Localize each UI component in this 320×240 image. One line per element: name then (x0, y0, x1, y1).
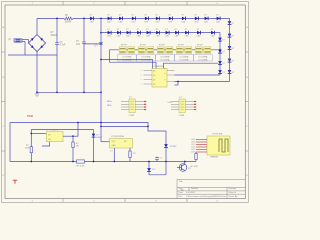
svg-text:OUT1: OUT1 (191, 147, 196, 149)
svg-text:D?: D? (216, 15, 218, 17)
svg-text:510K: 510K (25, 148, 31, 150)
svg-text:D?: D? (222, 39, 224, 41)
svg-text:OUT1: OUT1 (191, 142, 196, 144)
svg-text:D?: D? (232, 35, 234, 37)
svg-text:R? R?: R? R? (121, 45, 128, 47)
svg-text:R? R?: R? R? (197, 45, 204, 47)
svg-text:D?: D? (107, 15, 109, 17)
svg-text:LED: LED (117, 36, 121, 38)
svg-text:OUT1: OUT1 (191, 149, 196, 151)
svg-text:LED: LED (165, 36, 169, 38)
svg-text:LED: LED (195, 21, 199, 23)
svg-text:D?: D? (126, 29, 128, 31)
svg-text:LED: LED (211, 36, 215, 38)
svg-text:R? 100: R? 100 (191, 166, 199, 168)
svg-text:VD1-: VD1- (107, 105, 112, 107)
svg-text:D?: D? (117, 29, 119, 31)
svg-text:LED: LED (119, 21, 123, 23)
svg-text:LED: LED (137, 36, 141, 38)
svg-text:D?: D? (137, 29, 139, 31)
svg-text:OUT1: OUT1 (191, 144, 196, 146)
svg-text:D?: D? (107, 29, 109, 31)
svg-text:D?: D? (222, 72, 224, 74)
svg-text:LED: LED (169, 21, 173, 23)
svg-text:R? 0.33: R? 0.33 (77, 165, 85, 167)
svg-text:CON8: CON8 (129, 115, 135, 117)
svg-text:LED: LED (182, 21, 186, 23)
svg-text:LED: LED (197, 36, 201, 38)
svg-text:PWM: PWM (27, 115, 33, 118)
svg-text:1: 1 (141, 75, 142, 77)
svg-text:GND: GND (112, 145, 117, 147)
svg-text:D?: D? (185, 29, 187, 31)
svg-text:1R: 1R (76, 146, 79, 148)
svg-text:1: 1 (141, 79, 142, 81)
svg-text:D?: D? (165, 29, 167, 31)
svg-text:VD1+: VD1+ (107, 101, 113, 103)
svg-text:D?: D? (222, 51, 224, 53)
svg-text:D?: D? (211, 29, 213, 31)
svg-text:OUT1: OUT1 (191, 152, 196, 154)
svg-text:D?: D? (232, 72, 234, 74)
svg-text:Revision: Revision (229, 188, 237, 190)
svg-text:D?: D? (204, 15, 206, 17)
svg-text:D?: D? (222, 63, 224, 65)
svg-text:D?: D? (169, 15, 171, 17)
svg-text:GR8835: GR8835 (210, 157, 219, 159)
svg-text:LED: LED (175, 36, 179, 38)
svg-text:R? R?: R? R? (178, 45, 185, 47)
svg-text:4-Jul-2011: 4-Jul-2011 (186, 192, 196, 194)
svg-text:D?: D? (119, 15, 121, 17)
svg-text:1: 1 (141, 70, 142, 72)
svg-text:2W10: 2W10 (51, 35, 58, 37)
svg-text:D?: D? (90, 15, 92, 17)
svg-text:LED: LED (156, 36, 160, 38)
svg-text:Number: Number (191, 188, 198, 190)
svg-text:LED: LED (204, 21, 208, 23)
svg-text:LED: LED (146, 36, 150, 38)
svg-text:LED: LED (107, 21, 111, 23)
svg-text:R? R?: R? R? (140, 45, 147, 47)
svg-text:D?: D? (156, 29, 158, 31)
svg-text:R? R?: R? R? (159, 45, 166, 47)
svg-text:D?: D? (197, 29, 199, 31)
svg-text:LED: LED (145, 21, 149, 23)
svg-text:4.7uF: 4.7uF (60, 45, 66, 47)
svg-text:D?: D? (182, 15, 184, 17)
svg-text:Drawn By:: Drawn By: (229, 196, 239, 198)
svg-text:File:: File: (179, 196, 183, 198)
svg-text:D?: D? (156, 15, 158, 17)
svg-text:LED: LED (90, 21, 94, 23)
svg-text:U? HT46R: U? HT46R (212, 134, 223, 136)
svg-text:D?: D? (175, 29, 177, 31)
svg-text:CON8: CON8 (179, 115, 185, 117)
svg-text:LED: LED (216, 21, 220, 23)
svg-text:D?: D? (232, 23, 234, 25)
svg-text:D?: D? (232, 48, 234, 50)
svg-text:D? M7: D? M7 (170, 146, 177, 148)
svg-text:ES1J: ES1J (97, 137, 102, 139)
svg-text:D?: D? (145, 15, 147, 17)
svg-text:VD2+: VD2+ (168, 102, 174, 104)
svg-text:U? (?)SDH6: U? (?)SDH6 (46, 130, 59, 132)
svg-text:LED: LED (185, 36, 189, 38)
svg-text:D?: D? (146, 29, 148, 31)
svg-text:1: 1 (141, 84, 142, 86)
svg-text:D?: D? (132, 15, 134, 17)
svg-text:LED: LED (107, 36, 111, 38)
svg-text:U? SM2082: U? SM2082 (153, 66, 165, 68)
svg-text:LED: LED (156, 21, 160, 23)
svg-text:D?: D? (232, 60, 234, 62)
svg-text:LED: LED (132, 21, 136, 23)
svg-text:D?: D? (195, 15, 197, 17)
svg-text:OUT1: OUT1 (191, 139, 196, 141)
svg-text:1k/2W: 1k/2W (65, 21, 72, 23)
svg-text:LED: LED (126, 36, 130, 38)
